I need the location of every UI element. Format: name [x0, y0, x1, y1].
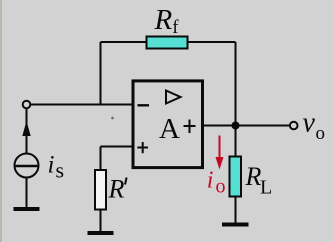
current source arrow (up): [22, 121, 30, 136]
svg-text:o: o: [316, 123, 326, 144]
ground (left): [14, 207, 40, 211]
wire: feedback tap vertical: [100, 42, 102, 105]
wire: node down to RL: [235, 126, 237, 158]
wire: input node to op-amp inverting input: [31, 104, 134, 106]
op-amp U1 box: [133, 81, 203, 168]
svg-text:R: R: [245, 162, 262, 191]
svg-text:o: o: [216, 176, 226, 198]
node: output junction dot: [232, 122, 240, 130]
wire: feedback horizontal left: [101, 41, 148, 43]
ground (right): [222, 223, 249, 227]
resistor RL: [230, 157, 242, 197]
ground (middle): [88, 231, 114, 235]
wire: feedback vertical right down to output node: [235, 42, 237, 126]
svg-text:R: R: [154, 4, 173, 36]
wire: input node down to current source: [26, 109, 28, 154]
plus label (output polarity): [184, 125, 196, 127]
node: output terminal (open circle): [290, 122, 298, 130]
svg-text:A: A: [159, 113, 180, 145]
svg-text:L: L: [260, 177, 272, 199]
svg-text:s: s: [56, 158, 65, 183]
svg-text:i: i: [207, 168, 214, 194]
wire: op-amp output to output terminal: [204, 125, 290, 127]
svg-text:f: f: [172, 17, 179, 38]
svg-text:v: v: [303, 108, 316, 139]
resistor Rf: [147, 37, 188, 49]
current source IS circle: [15, 154, 39, 178]
stray dot artifact: [111, 117, 114, 120]
wire: current source to ground: [26, 178, 28, 208]
wire: R' to ground: [100, 210, 102, 232]
resistor R': [95, 170, 106, 210]
minus label (inverting input): [138, 104, 150, 106]
current source bar: [16, 165, 38, 167]
wire: feedback horizontal right: [188, 41, 236, 43]
svg-text:i: i: [48, 152, 55, 179]
current i_o arrow (red, down): [219, 136, 221, 160]
svg-text:R: R: [108, 175, 125, 204]
op-amp triangle symbol: [166, 91, 181, 104]
wire: non-inverting input to R': [101, 146, 134, 148]
wire: RL to ground: [235, 197, 237, 223]
plus label (non-inverting input): [137, 147, 148, 149]
node: input terminal (open circle): [23, 101, 31, 109]
